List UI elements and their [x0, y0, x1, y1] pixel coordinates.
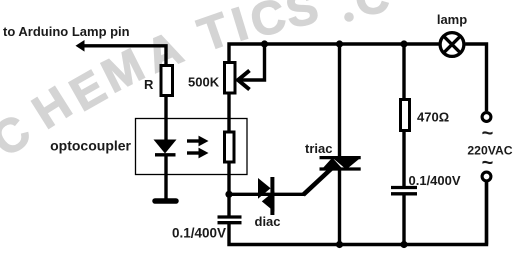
potentiometer wiper arrow [238, 44, 265, 90]
wire cap C2 to bottom bus [402, 194, 405, 245]
node wiper tap [261, 40, 268, 47]
AC terminal top [482, 113, 491, 122]
node triac bottom [336, 241, 343, 248]
wire photoresistor to diac node [227, 163, 230, 196]
LED light arrow 1 [187, 136, 209, 147]
node triac top [336, 40, 343, 47]
wire bottom terminal lead [485, 182, 488, 245]
svg-text:lamp: lamp [437, 12, 467, 27]
wire LED cathode to ground [164, 154, 167, 199]
svg-text:~: ~ [482, 123, 494, 145]
wire top bus [229, 44, 439, 62]
AC terminal bottom [482, 172, 491, 181]
svg-text:diac: diac [255, 214, 281, 229]
svg-text:triac: triac [305, 141, 332, 156]
wire diac node to cap C1 [227, 194, 230, 216]
lamp [440, 33, 464, 57]
wire to Arduino lamp pin [82, 46, 166, 65]
svg-text:~: ~ [482, 152, 494, 174]
capacitor C1 0.1/400V [218, 217, 242, 223]
wire diac horizontal [229, 193, 304, 196]
arrow to Arduino [76, 40, 85, 52]
resistor R [161, 66, 173, 96]
svg-text:0.1/400V: 0.1/400V [172, 226, 226, 241]
triac [320, 158, 361, 171]
svg-text:to Arduino Lamp pin: to Arduino Lamp pin [3, 24, 130, 39]
wire lamp right to terminal [465, 44, 486, 111]
wire pot bottom to photoresistor [227, 94, 230, 132]
svg-text:R: R [144, 77, 154, 92]
optocoupler box [136, 119, 248, 175]
wire 470 to cap C2 [402, 131, 405, 187]
photoresistor of optocoupler [225, 132, 235, 162]
node diac [225, 191, 232, 198]
wire triac column top [338, 44, 341, 158]
node 470 top [400, 40, 407, 47]
LED light arrow 2 [187, 148, 209, 159]
potentiometer 500K body [225, 63, 236, 94]
svg-text:C: C [0, 104, 40, 167]
node cap C2 bottom [400, 241, 407, 248]
capacitor C2 0.1/400V [391, 188, 417, 194]
wire triac gate diagonal [303, 169, 331, 195]
wire cap C1 to bottom bus [229, 182, 487, 245]
wire triac column bottom [338, 168, 341, 245]
LED of optocoupler [154, 140, 177, 155]
svg-text:0.1/400V: 0.1/400V [409, 173, 461, 188]
wire 470 column top [402, 44, 405, 99]
svg-text:500K: 500K [188, 75, 220, 90]
diac [258, 177, 274, 215]
svg-text:470Ω: 470Ω [417, 110, 449, 125]
watermark SCHEMATICS.COM [0, 0, 391, 193]
ground [155, 198, 176, 204]
svg-text:C: C [353, 0, 391, 25]
svg-text:optocoupler: optocoupler [50, 138, 131, 154]
wire R bottom to LED [164, 97, 167, 141]
resistor 470 [401, 100, 410, 131]
